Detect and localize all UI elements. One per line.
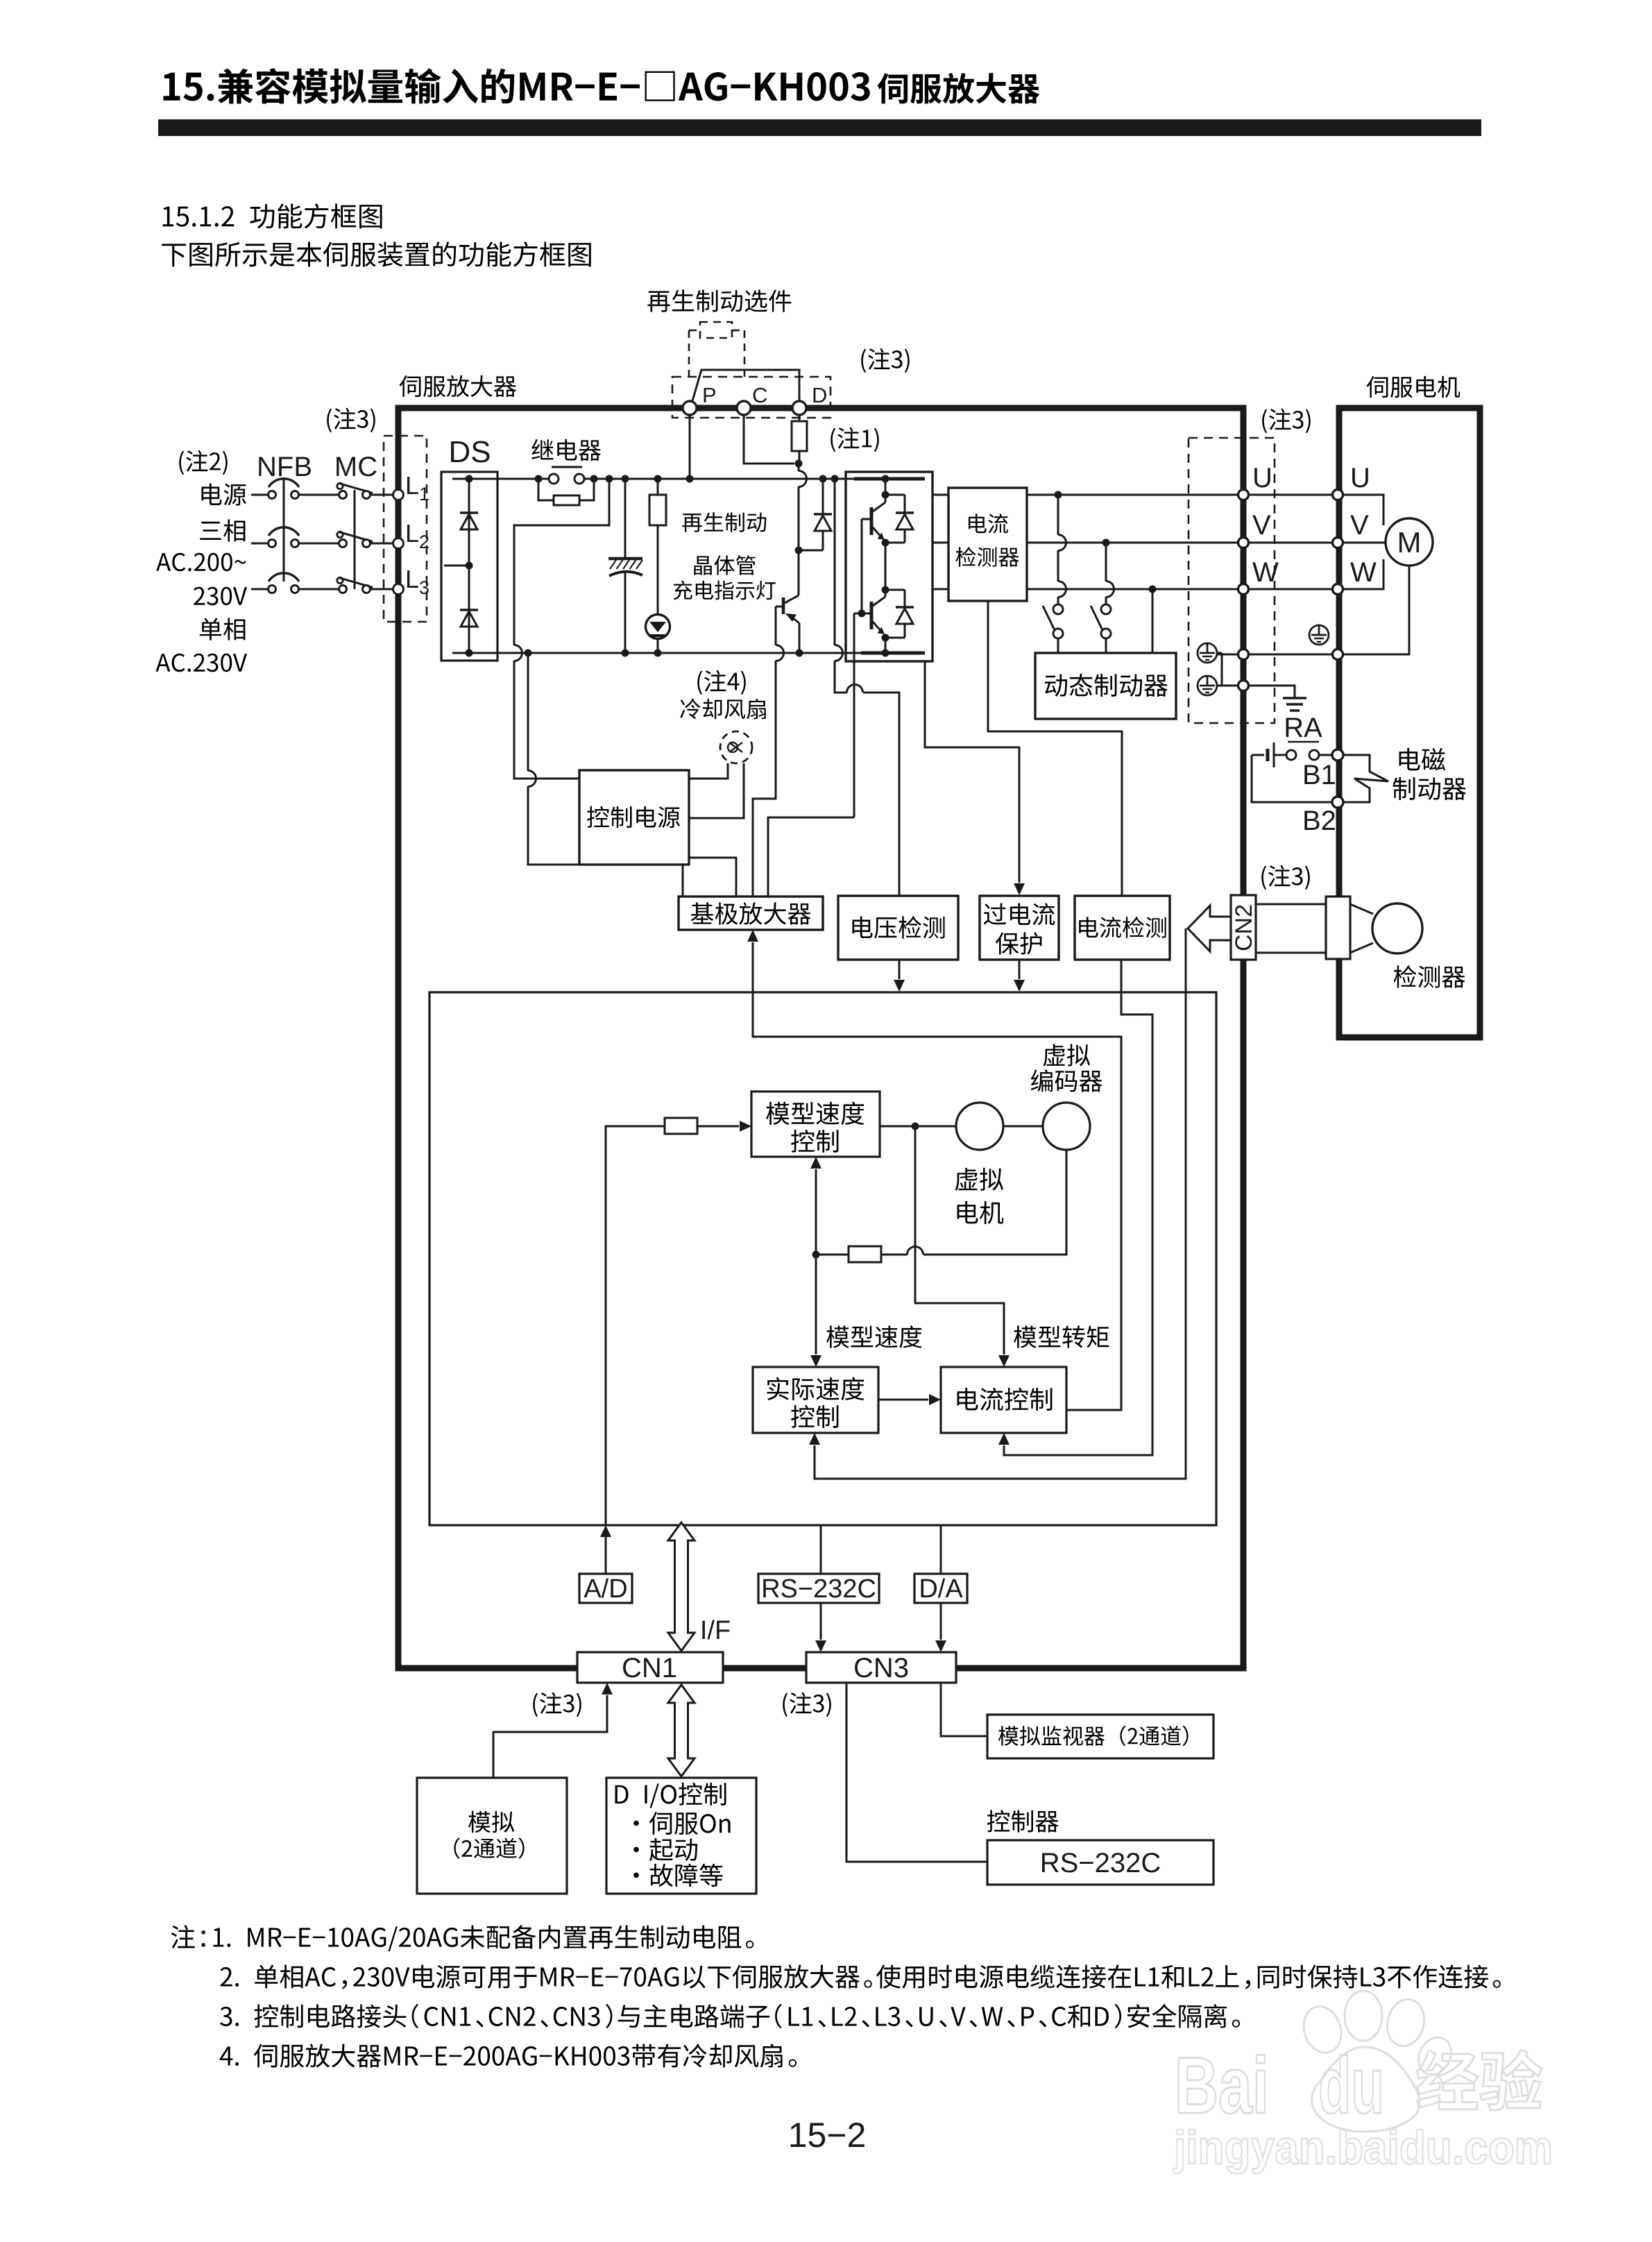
wire motor frame earth bbox=[1343, 566, 1409, 654]
wire analog input to CN1 bbox=[493, 1683, 613, 1778]
arrow model speed down bbox=[810, 1255, 821, 1367]
svg-text:jingyan.baidu.com: jingyan.baidu.com bbox=[1173, 2121, 1553, 2174]
wire control power to fan 2 bbox=[689, 763, 744, 818]
wire transistor base drive bbox=[753, 606, 784, 897]
wire overcurrent sense bbox=[925, 661, 1025, 895]
wire CN2 to encoder connector bbox=[1256, 904, 1326, 953]
svg-text:CN2: CN2 bbox=[1231, 904, 1257, 951]
terminal U (amplifier) bbox=[1238, 490, 1249, 500]
ground symbol RA bbox=[1283, 698, 1306, 711]
svg-text:A/D: A/D bbox=[584, 1574, 627, 1604]
dynamic brake block bbox=[1035, 653, 1176, 719]
connector CN2 bbox=[1231, 895, 1256, 960]
battery (brake power) bbox=[1252, 742, 1286, 767]
wire L1 phase input bbox=[251, 494, 393, 496]
svg-text:DS: DS bbox=[448, 435, 491, 469]
svg-text:du: du bbox=[1318, 2041, 1384, 2130]
diode (regen freewheel) bbox=[799, 475, 832, 551]
svg-text:M: M bbox=[1397, 526, 1422, 559]
diagram text labels bbox=[155, 68, 1542, 2110]
arrow actual speed to current control bbox=[878, 1394, 941, 1405]
wire N bus (DC- rail) bbox=[452, 652, 861, 654]
terminal earth 1 (amplifier) bbox=[1238, 649, 1249, 660]
svg-text:D/A: D/A bbox=[919, 1574, 963, 1604]
terminal L1 bbox=[393, 490, 404, 500]
wire P bus (DC+ rail) bbox=[497, 478, 854, 480]
encoder connector block bbox=[1326, 897, 1350, 959]
wire earth link amp-motor bbox=[1248, 654, 1333, 656]
arrow into model speed control bbox=[697, 1121, 751, 1132]
wire box to D/A bbox=[940, 1525, 942, 1574]
wire control power to base amplifier A bbox=[682, 865, 684, 897]
magnetic contactor MC (3 poles) bbox=[337, 483, 373, 593]
terminal L2 bbox=[393, 538, 404, 549]
svg-text:C: C bbox=[752, 383, 767, 407]
wire W to dynamic brake bbox=[1152, 589, 1154, 653]
watermark baidu paw bbox=[1298, 1991, 1458, 2132]
svg-text:U: U bbox=[1252, 463, 1272, 493]
svg-text:W: W bbox=[1350, 557, 1377, 588]
terminal B1 bbox=[1332, 749, 1343, 761]
terminal B2 bbox=[1332, 797, 1343, 808]
wire W amp to motor bbox=[1248, 588, 1333, 591]
svg-text:CN3: CN3 bbox=[853, 1653, 909, 1683]
latin text labels bbox=[257, 383, 1553, 2174]
wire voltage detection tap bbox=[831, 475, 900, 897]
dashed box around P C D terminals bbox=[672, 377, 831, 418]
protective earth symbol PE1 bbox=[1198, 643, 1217, 663]
svg-text:15−2: 15−2 bbox=[788, 2116, 867, 2155]
terminal earth (motor side) bbox=[1333, 649, 1343, 660]
wire V amp to motor bbox=[1248, 542, 1333, 544]
terminal V (amplifier) bbox=[1238, 538, 1249, 548]
svg-text:RS−232C: RS−232C bbox=[761, 1574, 876, 1604]
svg-text:V: V bbox=[1350, 510, 1369, 541]
svg-text:V: V bbox=[1252, 510, 1271, 541]
wire model speed control to virtual motor bbox=[880, 1123, 956, 1130]
diode stack DS (rectifier) bbox=[441, 472, 497, 661]
arrow model speed up bbox=[810, 1157, 821, 1255]
resistor (charge lamp series) bbox=[649, 475, 666, 615]
wire phase W bbox=[933, 586, 1238, 593]
terminal P bbox=[683, 401, 697, 415]
wire current control to base amplifier bbox=[747, 930, 1121, 1410]
encoder ball bbox=[1372, 903, 1422, 953]
wire C terminal down bbox=[744, 415, 794, 464]
wire virtual encoder feedback bbox=[881, 1150, 1066, 1255]
wire control power to base amplifier B bbox=[689, 858, 736, 897]
virtual motor circle bbox=[956, 1103, 1003, 1150]
wire earth to RA ground bbox=[1248, 686, 1295, 698]
svg-text:W: W bbox=[1252, 557, 1279, 588]
voltage detection block bbox=[838, 896, 958, 960]
wire PE1 to terminal bbox=[1217, 653, 1238, 686]
current detection block bbox=[1075, 896, 1170, 960]
wire phase V bbox=[933, 539, 1238, 547]
servo amplifier enclosure box bbox=[398, 408, 1243, 1668]
svg-text:P: P bbox=[702, 383, 717, 407]
svg-text:Bai: Bai bbox=[1175, 2041, 1269, 2130]
switch dynamic brake V bbox=[1091, 543, 1114, 653]
D/A block bbox=[914, 1574, 967, 1603]
wire feedback to junction bbox=[812, 1251, 849, 1259]
wire L3 phase input bbox=[251, 588, 393, 591]
connector CN1 bbox=[577, 1652, 723, 1683]
control section box bbox=[429, 992, 1216, 1525]
svg-text:MC: MC bbox=[334, 452, 377, 482]
relay contact RA (brake) bbox=[1286, 750, 1333, 760]
wire phase U bbox=[933, 491, 1238, 499]
switch dynamic brake U bbox=[1043, 495, 1066, 653]
svg-text:NFB: NFB bbox=[257, 452, 312, 482]
terminal W (motor) bbox=[1333, 584, 1343, 595]
arrow D/A to CN3 bbox=[935, 1603, 946, 1652]
cooling fan (note4) bbox=[720, 731, 752, 763]
terminal D bbox=[792, 401, 806, 415]
svg-text:I/F: I/F bbox=[700, 1616, 731, 1645]
charge indicator lamp bbox=[646, 615, 670, 657]
dashed isolation box around L1 L2 L3 terminals bbox=[384, 436, 427, 622]
switch arm P to D (regen option jumper) bbox=[692, 370, 799, 403]
relay contact on P bus bbox=[535, 467, 598, 484]
terminal earth 2 (amplifier) bbox=[1238, 681, 1249, 691]
transistor (regenerative brake) bbox=[783, 550, 803, 657]
virtual encoder circle bbox=[1043, 1103, 1090, 1150]
wire CN3 to analog monitor bbox=[941, 1683, 987, 1736]
feedback arrow from CN2 bbox=[1188, 906, 1231, 951]
terminal W (amplifier) bbox=[1238, 584, 1249, 595]
svg-text:CN1: CN1 bbox=[622, 1653, 677, 1683]
wire control power to fan 1 bbox=[689, 763, 728, 779]
wire encoder feedback to actual speed control bbox=[809, 928, 1186, 1479]
wire D to transistor collector bbox=[795, 464, 807, 554]
protective earth symbol (motor) bbox=[1309, 625, 1329, 645]
wire CN3 to controller bbox=[846, 1683, 987, 1862]
interface double arrow I/F bbox=[668, 1522, 695, 1651]
analog input block bbox=[417, 1778, 567, 1894]
resistor (speed command) bbox=[665, 1118, 697, 1134]
wire motor W lead bbox=[1343, 559, 1383, 589]
A/D block bbox=[579, 1574, 632, 1603]
terminal V (motor) bbox=[1333, 538, 1343, 548]
wire control power feed bbox=[514, 475, 613, 779]
wire motor U lead bbox=[1343, 495, 1383, 525]
svg-text:D: D bbox=[812, 383, 827, 407]
terminal C bbox=[737, 401, 751, 415]
encoder coupling bbox=[1350, 904, 1373, 953]
wire current detection feedback bbox=[998, 960, 1152, 1455]
arrow RS-232C to CN3 bbox=[815, 1603, 826, 1652]
analog monitor block bbox=[987, 1715, 1214, 1758]
wire U amp to motor bbox=[1248, 494, 1333, 496]
wire control power return bbox=[525, 649, 580, 865]
wire virtual motor to virtual encoder bbox=[1003, 1126, 1043, 1128]
wire IGBT gate drive bbox=[854, 613, 862, 817]
RA underline bbox=[1288, 741, 1319, 743]
wire IGBT gate link bbox=[768, 817, 854, 897]
control power block bbox=[579, 770, 689, 865]
current detector block bbox=[948, 488, 1027, 601]
IGBT inverter bridge module bbox=[846, 472, 933, 661]
title bar under heading bbox=[158, 119, 1481, 136]
actual speed control block bbox=[753, 1367, 878, 1433]
model speed control block bbox=[751, 1092, 880, 1157]
wire P terminal to P bus bbox=[686, 415, 694, 483]
capacitor (DC bus smoothing) bbox=[608, 475, 642, 657]
wire model torque bbox=[915, 1126, 1010, 1367]
resistor (speed feedback) bbox=[849, 1246, 881, 1262]
RS-232C block bbox=[758, 1574, 879, 1603]
overcurrent protection block bbox=[980, 896, 1059, 960]
svg-text:RS−232C: RS−232C bbox=[1040, 1848, 1161, 1878]
servo motor enclosure box bbox=[1339, 408, 1480, 1037]
svg-text:B1: B1 bbox=[1302, 760, 1336, 790]
motor M bbox=[1386, 518, 1433, 566]
relay bypass resistor bbox=[538, 479, 594, 505]
wire motor V lead bbox=[1343, 542, 1386, 544]
wire PE2 to terminal bbox=[1217, 685, 1238, 687]
terminal L3 bbox=[393, 584, 404, 595]
terminal U (motor) bbox=[1333, 490, 1343, 500]
controller RS-232C block bbox=[987, 1840, 1214, 1885]
connector CN3 bbox=[806, 1652, 956, 1683]
wire A/D to model speed control bbox=[600, 1126, 665, 1574]
base amplifier block bbox=[679, 897, 823, 930]
dashed leads regenerative brake option bbox=[689, 330, 744, 377]
arrow voltage detection to bus bbox=[894, 960, 905, 992]
svg-text:U: U bbox=[1350, 463, 1370, 493]
svg-text:RA: RA bbox=[1284, 713, 1322, 743]
circuit breaker NFB (3 poles) bbox=[269, 479, 300, 593]
dashed box regenerative brake option resistor bbox=[700, 322, 732, 338]
protective earth symbol PE2 bbox=[1198, 676, 1217, 695]
brake break symbol bbox=[1343, 755, 1388, 802]
arrow overcurrent protection to bus bbox=[1014, 960, 1025, 992]
double arrow CN1 to DIO bbox=[668, 1685, 695, 1776]
wire box to RS-232C bbox=[820, 1525, 822, 1574]
svg-text:B2: B2 bbox=[1302, 806, 1336, 836]
wire current detector to current detection bbox=[988, 601, 1122, 896]
wire L2 phase input bbox=[251, 543, 393, 545]
wire brake loop bbox=[1252, 755, 1332, 802]
dashed isolation box around U V W terminals bbox=[1189, 438, 1275, 723]
resistor (built-in regenerative, note1) bbox=[792, 415, 807, 468]
digital IO block bbox=[606, 1778, 756, 1894]
current control block bbox=[941, 1367, 1066, 1433]
